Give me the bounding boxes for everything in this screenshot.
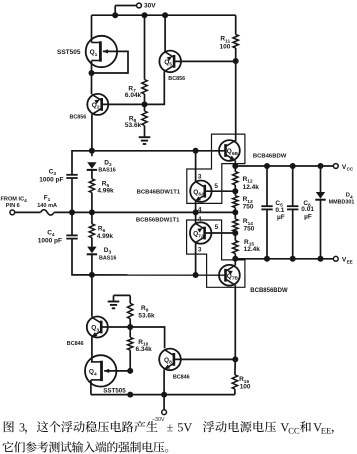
wire Q8 emitter to rail xyxy=(163,370,165,395)
label R5 xyxy=(97,181,114,195)
svg-text:100: 100 xyxy=(220,43,231,50)
label D4 xyxy=(329,193,355,206)
junction Q7A collector on lower node xyxy=(193,272,199,278)
terminal VCC xyxy=(333,164,354,172)
svg-text:3: 3 xyxy=(198,173,202,180)
label R10 xyxy=(136,339,153,353)
svg-text:1000 pF: 1000 pF xyxy=(39,176,63,183)
junction Q8 base Q7B collector R16 xyxy=(232,356,238,362)
wire Q6A base to R12 R13 node xyxy=(205,190,235,192)
svg-text:5: 5 xyxy=(214,183,218,190)
junction Q1 feedback xyxy=(89,70,95,76)
wire D2 to R5 xyxy=(91,170,93,179)
label C6 xyxy=(301,200,314,221)
transistor Q7B BC856 PNP xyxy=(219,265,240,286)
svg-text:5: 5 xyxy=(215,224,219,231)
label BC846 Q3 xyxy=(67,341,84,347)
svg-text:MMBD301: MMBD301 xyxy=(329,200,355,206)
terminal 30V xyxy=(115,3,156,16)
svg-text:µF: µF xyxy=(277,214,285,221)
wire Q7A base to R14 R15 node xyxy=(205,232,235,234)
svg-text:53.6k: 53.6k xyxy=(138,312,155,319)
pin 4 Q7A xyxy=(198,216,202,223)
label Q2 xyxy=(92,102,100,111)
wire VEE rail xyxy=(235,258,333,260)
wire D2 anode xyxy=(91,151,93,156)
svg-text:750: 750 xyxy=(243,203,254,210)
label R8 xyxy=(125,116,142,130)
wire Q4 source to bottom rail xyxy=(90,380,92,395)
resistor R7 6.04k xyxy=(142,80,147,95)
label R13 xyxy=(243,196,254,210)
capacitor C5 0.1uF xyxy=(261,166,272,259)
svg-text:SST505: SST505 xyxy=(103,388,126,395)
wire Q4 drain entry xyxy=(90,361,92,363)
wire Q6B emitter to VCC node xyxy=(234,161,236,167)
label BCB56BDW1T1 xyxy=(136,217,180,223)
junction upper node left xyxy=(89,148,95,154)
svg-text:BC856: BC856 xyxy=(70,114,87,120)
label Q7B xyxy=(227,273,239,282)
label Q8 xyxy=(164,357,172,366)
wire R7 bottom xyxy=(144,94,146,104)
junction Q6B emitter R12 VCC xyxy=(232,163,238,169)
label Q6B xyxy=(227,148,239,157)
svg-text:BC856: BC856 xyxy=(168,76,185,82)
label R7 xyxy=(125,85,142,99)
transistor Q2 BC856 PNP xyxy=(87,94,108,115)
label FROM IC4 xyxy=(1,196,28,209)
svg-text:BCB56BDW1T1: BCB56BDW1T1 xyxy=(136,217,180,223)
label Q5 xyxy=(164,59,172,68)
resistor R15 12.4k xyxy=(233,233,238,259)
transistor Q5 BC856 PNP xyxy=(159,51,181,73)
label C5 xyxy=(275,200,284,221)
junction R15 Q7B emitter VEE xyxy=(232,256,238,262)
wire Q5 collector down xyxy=(163,71,166,104)
resistor R10 6.34k xyxy=(128,327,133,350)
svg-text:4.99k: 4.99k xyxy=(97,233,114,240)
label BC856 Q5 xyxy=(168,76,185,82)
fuse F1 140mA xyxy=(41,210,55,215)
resistor R8 53.6k xyxy=(142,104,147,125)
junction C6 bottom xyxy=(290,256,296,262)
transistor Q7A BC856 PNP xyxy=(190,222,211,243)
junction C3 C4 on rail xyxy=(69,209,75,215)
wire R6 top xyxy=(91,212,93,223)
package outline BC846BDW1T1 xyxy=(187,134,245,203)
wire D3 to lower node xyxy=(91,255,93,275)
wire Q4 gate xyxy=(104,369,130,373)
junction lower node left xyxy=(89,272,95,278)
label R9 xyxy=(138,305,155,319)
wire input to fuse xyxy=(15,211,41,213)
junction -30V Q8 emitter on rail xyxy=(161,392,167,398)
resistor R9 53.6k xyxy=(128,303,133,318)
svg-text:1000 pF: 1000 pF xyxy=(38,238,62,245)
svg-text:SST505: SST505 xyxy=(57,49,81,56)
transistor Q4 SST505 JFET xyxy=(85,355,116,386)
svg-text:BC846: BC846 xyxy=(173,374,190,380)
svg-text:6.04k: 6.04k xyxy=(125,92,142,99)
svg-text:0.1: 0.1 xyxy=(275,207,284,214)
junction Q4 gate xyxy=(127,368,133,374)
package outline BC856BDW1T1 xyxy=(187,220,245,287)
pin 3 Q6A xyxy=(198,173,202,180)
wire Q1 drain to rail xyxy=(91,15,93,42)
svg-text:CC: CC xyxy=(347,167,354,172)
wire R11 bottom to node xyxy=(235,48,237,61)
capacitor C6 0.01uF xyxy=(287,166,298,259)
svg-text:3: 3 xyxy=(198,247,202,254)
label R11 xyxy=(220,36,231,51)
wire C3 branch xyxy=(72,151,92,213)
label D2 xyxy=(98,159,115,173)
wire R8 to ground xyxy=(144,126,146,138)
svg-text:0.01: 0.01 xyxy=(301,206,314,213)
transistor Q1 SST505 JFET xyxy=(86,36,117,67)
pin 5 Q7A xyxy=(215,224,219,231)
wire Q3 collector to lower node xyxy=(91,275,93,317)
junction C5 bottom xyxy=(264,256,270,262)
svg-text:BCB46BDW1T1: BCB46BDW1T1 xyxy=(137,189,181,195)
svg-text:140 mA: 140 mA xyxy=(37,203,57,209)
transistor Q6B BC846 NPN xyxy=(219,140,240,161)
svg-text:BAS16: BAS16 xyxy=(98,168,115,174)
svg-text:µF: µF xyxy=(304,214,312,221)
label BC846 Q8 xyxy=(173,374,190,380)
wire Q5 base to R11 node xyxy=(174,60,235,62)
wire Q6A collector up xyxy=(194,151,197,181)
label C4 xyxy=(38,229,62,244)
svg-text:BAS16: BAS16 xyxy=(99,256,116,262)
svg-text:6.34k: 6.34k xyxy=(136,346,153,353)
ground top (R8) xyxy=(139,137,151,144)
resistor R11 100 xyxy=(233,35,238,49)
label Q4 xyxy=(89,369,97,378)
wire Q7B collector down to Q8 base xyxy=(234,285,236,359)
label R6 xyxy=(97,226,114,241)
svg-text:BCB856BDW: BCB856BDW xyxy=(250,288,288,294)
diode D4 MMBD301 xyxy=(315,166,325,259)
wire Q6B collector lead xyxy=(234,140,236,142)
junction C6 top xyxy=(290,163,296,169)
label R12 xyxy=(243,176,260,191)
wire VCC rail xyxy=(235,165,333,167)
junction D4 top xyxy=(318,163,324,169)
resistor R16 100 xyxy=(232,359,237,394)
junction R5 R6 on rail xyxy=(89,209,95,215)
resistor R12 12.4k xyxy=(233,166,238,191)
wire Q7A collector down xyxy=(195,243,197,275)
svg-text:EE: EE xyxy=(347,259,353,264)
wire Q2 base to Q5 collector xyxy=(102,103,165,105)
wire rail corner to R11 xyxy=(235,15,237,34)
pin 3 Q7A xyxy=(198,247,202,254)
wire C4 branch xyxy=(72,212,92,275)
wire R7 line from rail xyxy=(144,15,146,79)
junction R10 line on bottom rail xyxy=(127,392,133,398)
wire Q5 emitter to rail xyxy=(164,15,166,52)
diode D3 BAS16 xyxy=(87,247,97,255)
transistor Q8 BC846 NPN xyxy=(159,349,181,371)
wire Q6B collector up to R11 node xyxy=(235,61,237,141)
svg-text:53.6k: 53.6k xyxy=(125,122,142,129)
junction R9 R10 Q3 base Q8 collector xyxy=(127,324,133,330)
junction R7 R8 Q2 base xyxy=(142,101,148,107)
terminal -30V xyxy=(152,395,166,423)
capacitor C4 1000pF xyxy=(66,235,77,238)
svg-text:12.4k: 12.4k xyxy=(244,246,261,253)
junction C5 top xyxy=(264,163,270,169)
terminal VEE xyxy=(333,256,352,264)
resistor R6 4.99k xyxy=(89,224,94,238)
label BCB46BDW1T1 xyxy=(137,189,181,195)
wire Q1 source to Q2 emitter xyxy=(91,61,93,95)
label BCB46BDW xyxy=(253,154,287,160)
wire Q6A emitter to input rail xyxy=(195,201,197,212)
wire bottom rail xyxy=(91,394,235,396)
wire R9 bottom xyxy=(129,319,131,327)
wire Q3 emitter to Q4 drain xyxy=(91,337,93,362)
junction R11 Q5 base Q6B collector xyxy=(233,58,239,64)
label Q7A xyxy=(193,231,205,240)
wire Q7A emitter to rail xyxy=(195,212,197,223)
diode D2 BAS16 xyxy=(87,162,97,170)
svg-text:–30V: –30V xyxy=(152,417,165,423)
ground bottom (R9 top) xyxy=(108,295,131,308)
svg-text:4.99k: 4.99k xyxy=(97,188,114,195)
wire Q2 collector down xyxy=(91,114,93,150)
junction R13 R14 on rail xyxy=(232,209,238,215)
capacitor C3 1000pF xyxy=(66,175,77,178)
junction R14 R15 Q7A base xyxy=(232,230,238,236)
junction Q6A Q7A emitters on rail xyxy=(193,209,199,215)
wire Q3 base to R9 R10 node xyxy=(101,326,130,328)
transistor Q6A BC846 NPN xyxy=(190,181,211,202)
pin 4 Q6A xyxy=(198,207,202,214)
wire Q8 base to R16 node xyxy=(174,358,235,360)
label Q3 xyxy=(91,325,99,334)
label R15 xyxy=(244,239,261,253)
wire Q2 emitter lead xyxy=(91,93,93,95)
wire input rail xyxy=(54,211,235,213)
label R14 xyxy=(243,218,255,232)
wire R10 to Q4 gate node xyxy=(129,350,131,371)
label F1 xyxy=(37,195,57,209)
transistor Q3 BC846 NPN xyxy=(87,317,108,338)
junction 30V stub on rail xyxy=(112,12,118,18)
wire lower node (to Q7B base) xyxy=(92,274,226,276)
wire R5 to input rail xyxy=(91,193,93,213)
label R16 xyxy=(239,376,251,390)
junction Q6A collector on upper node xyxy=(193,148,199,154)
resistor R14 750 xyxy=(233,212,238,233)
resistor R5 4.99k xyxy=(89,179,94,193)
wire R6 to D3 xyxy=(91,238,93,247)
junction R12 R13 Q6A base xyxy=(232,188,238,194)
svg-text:BCB46BDW: BCB46BDW xyxy=(253,154,287,160)
label C3 xyxy=(39,169,63,184)
pin 5 Q6A xyxy=(214,183,218,190)
wire Q7B emitter up xyxy=(234,259,236,265)
junction R7 top on rail xyxy=(142,12,148,18)
label BCB856BDW xyxy=(250,288,288,294)
label SST505 Q4 xyxy=(103,388,126,395)
svg-text:750: 750 xyxy=(244,225,255,232)
svg-text:100: 100 xyxy=(240,384,251,391)
wire Q1 gate feedback loop xyxy=(92,49,129,73)
label SST505 Q1 xyxy=(57,49,81,56)
junction Q5 emitter on rail xyxy=(162,12,168,18)
wire upper node (Q2 collector to Q6B base) xyxy=(92,150,226,152)
terminal input from IC4 xyxy=(10,210,15,215)
svg-text:12.4k: 12.4k xyxy=(243,184,260,191)
svg-text:30V: 30V xyxy=(144,3,156,10)
label D3 xyxy=(99,247,116,262)
svg-text:PIN 6: PIN 6 xyxy=(6,203,20,209)
wire top 30V rail xyxy=(92,14,236,16)
junction D4 bottom xyxy=(318,256,324,262)
wire Q8 collector branch xyxy=(130,327,164,348)
label Q6A xyxy=(193,189,205,198)
label Q1 xyxy=(90,49,98,58)
wire R9 top xyxy=(129,295,131,303)
caption line 1 and 2 xyxy=(3,421,334,453)
label BC856 Q2 xyxy=(70,114,87,120)
svg-text:4: 4 xyxy=(198,216,202,223)
resistor R13 750 xyxy=(233,191,238,212)
svg-text:BC846: BC846 xyxy=(67,341,84,347)
